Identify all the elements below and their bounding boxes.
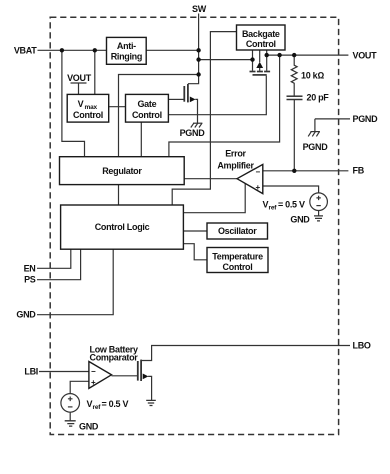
junction SW-backgate PMOS [196,57,200,61]
svg-text:VOUT: VOUT [353,50,378,60]
voltage source Vref 0.5V (comparator) [61,394,80,413]
IC boundary dashed box [50,17,338,434]
svg-text:= 0.5 V: = 0.5 V [102,399,129,409]
ground GND (bottom left, earth) [65,421,76,426]
svg-text:= 0.5 V: = 0.5 V [278,199,305,209]
junction FB-divider [292,169,296,173]
ground GND (error amp Vref, earth) [314,216,323,221]
wire error amp output to Regulator [184,178,237,180]
svg-text:LBO: LBO [353,341,371,351]
svg-text:Control: Control [132,110,162,120]
junction VBAT-regulator branch [60,48,64,52]
resistor 10 kOhm [291,55,297,96]
svg-text:Oscillator: Oscillator [218,226,257,236]
svg-text:+: + [91,378,96,387]
wire LBO NMOS source to ground [148,376,152,400]
junction VOUT-divider [292,53,296,57]
op-amp low battery comparator [89,362,112,389]
wire Gate Control to backgate PMOS gate [168,76,266,115]
transistor backgate PMOS pair [250,72,271,75]
ground PGND (left, slashed) [191,123,203,127]
wire VOUT rail [267,54,349,56]
svg-text:Error: Error [225,149,246,159]
svg-text:GND: GND [79,422,99,432]
svg-text:Temperature: Temperature [212,252,263,262]
junction backgate PMOS drain [250,57,254,61]
svg-text:Backgate: Backgate [242,29,280,39]
svg-text:Amplifier: Amplifier [217,161,254,171]
svg-text:VOUT: VOUT [67,73,92,83]
block Backgate Control [237,25,286,50]
svg-text:Control Logic: Control Logic [95,222,150,232]
wire SW pin line [188,14,199,84]
wire GND pin [37,249,113,315]
wire EN pin [37,249,71,268]
svg-text:Control: Control [73,110,103,120]
block Control Logic [61,205,184,249]
ground PGND (right, slashed) [308,132,320,137]
wire Control Logic to Oscillator [183,230,207,232]
wire Gate Control to Regulator [140,122,142,157]
block Gate Control [126,94,169,122]
op-amp error amplifier [237,164,263,193]
wire FB pin line [263,170,349,172]
wire Backgate Control to Control Logic [172,32,236,205]
capacitor 20 pF [287,96,303,99]
junction VBAT-Vmax branch [93,48,97,52]
wire SW node to Regulator [119,75,199,157]
svg-text:Control: Control [246,39,276,49]
wire LBI pin [39,371,89,373]
svg-text:+: + [256,183,261,192]
svg-text:Regulator: Regulator [102,166,142,176]
voltage source Vref 0.5V (error amp) [310,193,328,211]
wire LBO NMOS drain to LBO pin [141,346,350,361]
svg-text:PGND: PGND [180,128,206,138]
wire backgate stub C [266,50,268,71]
svg-text:Comparator: Comparator [90,353,139,363]
svg-text:−: − [256,167,261,176]
wire PS pin [37,249,81,280]
wire SW node to backgate PMOS [199,59,253,61]
svg-text:Ringing: Ringing [111,51,142,61]
svg-text:VBAT: VBAT [14,45,37,55]
svg-text:GND: GND [290,215,310,225]
transistor LBO NMOS [138,360,141,381]
svg-text:PS: PS [24,275,36,285]
svg-text:−: − [91,367,96,376]
svg-text:20 pF: 20 pF [307,93,330,103]
wire divider to FB node [293,100,295,171]
wire comparator + input to Vref [70,381,89,393]
junction SW-regulator branch [196,72,200,76]
wire Gate Control to NMOS gate [168,98,183,100]
wire Regulator to Control Logic [118,185,120,205]
wire error amp + input to Vref [263,186,319,193]
svg-text:FB: FB [353,166,365,176]
wire VBAT to regulator (jog) [62,50,85,156]
svg-text:GND: GND [16,310,36,320]
svg-text:Anti-: Anti- [117,41,136,51]
wire Vmax Control to Gate Control [109,106,126,108]
wire Vref source (right) to GND [318,210,320,215]
wire backgate stub A [252,50,254,71]
svg-text:SW: SW [192,4,207,14]
junction SW-antiringing [196,48,200,52]
svg-text:EN: EN [24,263,36,273]
block Anti-Ringing [107,37,147,64]
wire backgate stub B (body) [259,50,261,71]
wire NMOS source to PGND [195,99,197,123]
ground (LBO NMOS source, earth) [146,400,156,405]
wire Control Logic to Temperature Control [183,244,207,260]
block Oscillator [207,223,268,239]
wire Anti-Ringing to SW node [146,49,198,51]
wire PGND pin (right) [315,119,350,132]
block Vmax Control [67,94,109,122]
wire comparator output to LBO NMOS gate [112,375,138,377]
wire VBAT pin line [38,49,107,51]
wire VBAT to Vmax Control top [94,50,96,94]
svg-text:Control: Control [223,262,253,272]
junction VOUT-regulator branch [277,53,281,57]
wire VOUT internal label stub [71,83,87,94]
wire VOUT rail to Regulator [169,55,280,157]
wire Vref source (bottom) to GND [69,412,71,420]
svg-text:V: V [78,99,84,109]
svg-text:Gate: Gate [137,99,156,109]
block Regulator [60,157,185,185]
svg-text:10 kΩ: 10 kΩ [301,70,324,80]
block Temperature Control [207,248,268,273]
svg-text:LBI: LBI [24,367,38,377]
svg-text:ref: ref [93,404,102,411]
wire error amp to Control Logic [183,183,245,212]
transistor main switch NMOS [184,84,188,102]
svg-text:PGND: PGND [303,142,329,152]
svg-text:PGND: PGND [353,114,379,124]
svg-text:ref: ref [269,204,278,211]
junction VOUT-backgate PMOS [265,53,269,57]
